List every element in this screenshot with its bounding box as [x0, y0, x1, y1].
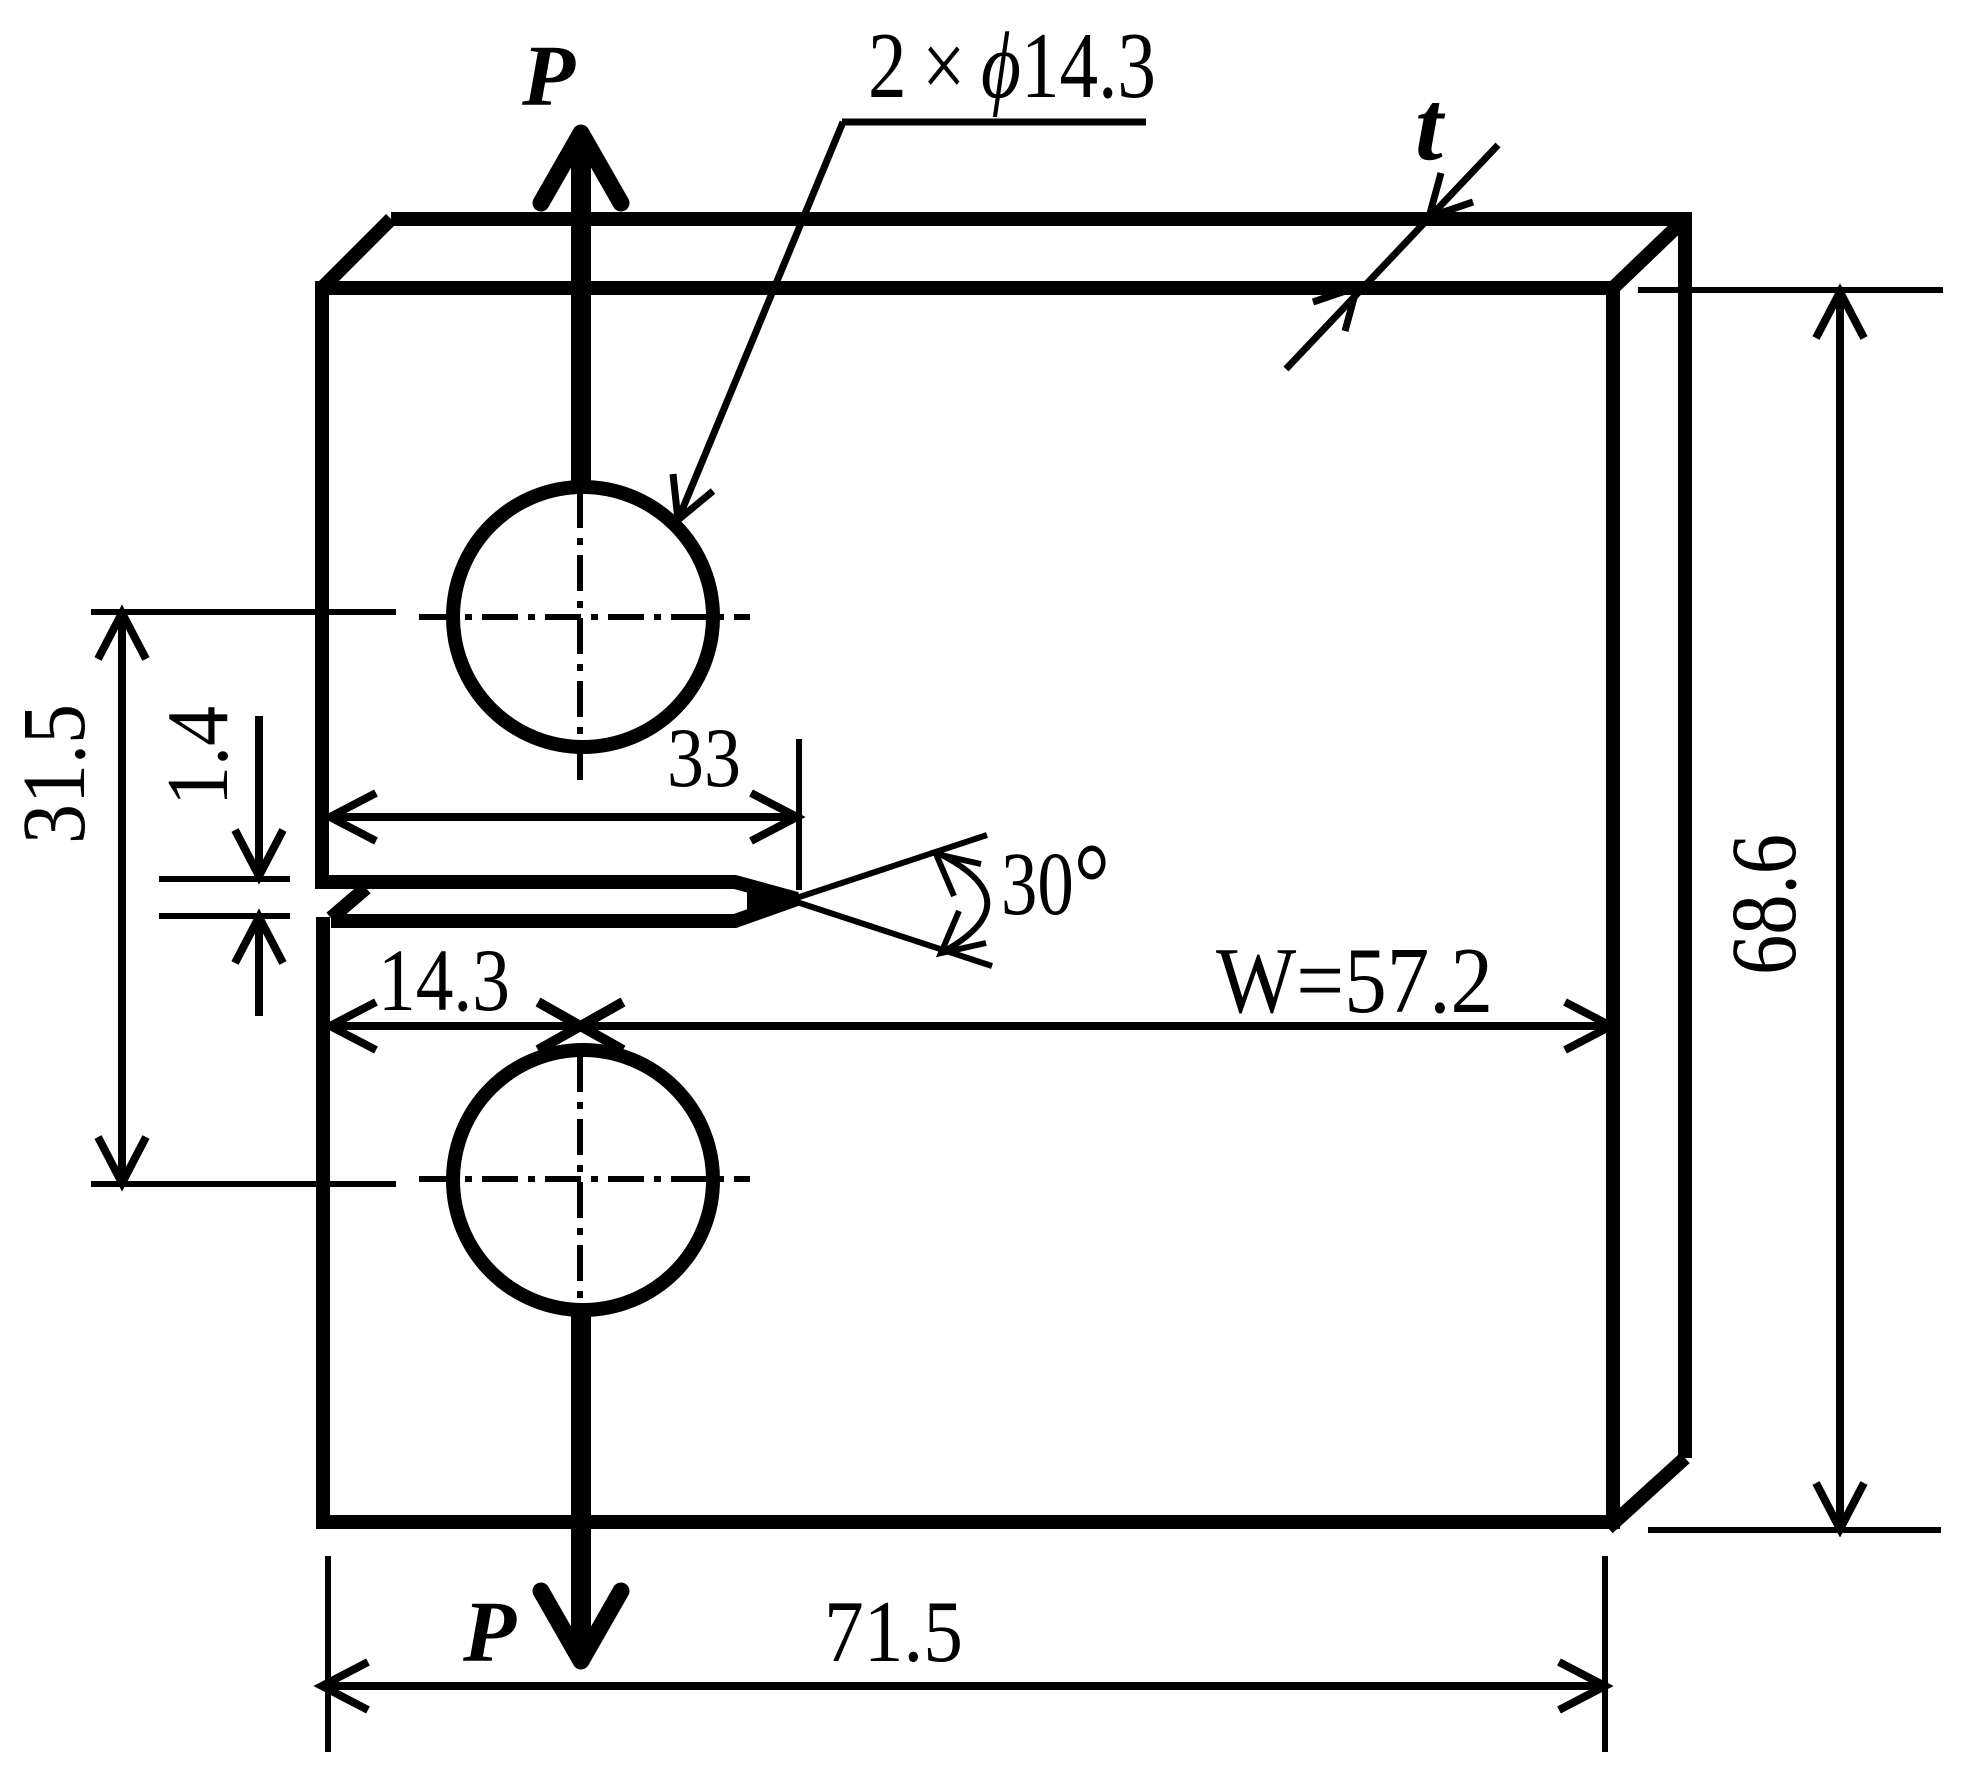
dim W right arrow	[1565, 1002, 1611, 1050]
dim 1.4 lower tick	[159, 913, 290, 919]
dim 33 line	[330, 813, 797, 821]
load arrow P down shaft	[571, 1316, 591, 1652]
top-right depth diagonal	[1613, 219, 1685, 288]
dim 31.5 bottom extension	[91, 1181, 396, 1187]
dim 33 left arrow	[330, 793, 376, 841]
notch angle arc upper arrowhead	[936, 854, 981, 896]
dim 14.3 / W line	[330, 1022, 1611, 1030]
lower pin hole	[453, 1050, 713, 1310]
hole label leader line	[680, 122, 843, 515]
notch angle arc	[938, 853, 987, 953]
upper pin hole	[453, 487, 713, 747]
svg-text:t: t	[1415, 70, 1446, 181]
dim 1.4 upper line	[235, 716, 283, 876]
svg-text:1.4: 1.4	[150, 706, 247, 806]
notch bottom lip	[331, 899, 797, 921]
notch top lip	[315, 882, 797, 899]
notch angle arc lower arrowhead	[941, 911, 986, 953]
dim 33 right arrow	[751, 793, 797, 841]
dim 68.6 bottom extension	[1648, 1527, 1941, 1533]
dim 71.5 right extension	[1602, 1556, 1608, 1752]
dim oblique mark	[538, 1002, 623, 1050]
dim 1.4 lower line	[235, 917, 283, 1016]
dim 33 extension line	[796, 739, 802, 890]
dim 31.5 bottom arrow	[98, 1137, 146, 1183]
notch angle upper line	[748, 835, 987, 914]
dim 1.4 upper tick	[159, 876, 290, 882]
thickness leader line	[1286, 145, 1498, 369]
svg-text:14.3: 14.3	[378, 932, 510, 1030]
hole label leader arrowhead	[673, 474, 713, 520]
svg-text:30°: 30°	[1001, 821, 1110, 945]
specimen front face outline	[322, 288, 1613, 1522]
svg-text:31.5: 31.5	[5, 704, 104, 844]
upper hole vertical centerline	[577, 492, 583, 786]
lower hole horizontal centerline	[419, 1176, 750, 1182]
dim 31.5 line	[118, 613, 126, 1183]
thickness lower arrowhead	[1313, 287, 1357, 331]
dim 68.6 top extension	[1638, 287, 1943, 293]
notch mouth chamfer	[331, 888, 366, 918]
top-left depth diagonal	[322, 219, 391, 288]
dim 71.5 left extension	[325, 1556, 331, 1752]
svg-text:33: 33	[667, 711, 741, 805]
notch tip fill	[747, 886, 797, 912]
lower hole vertical centerline	[577, 1056, 583, 1300]
dim 14.3 left arrow	[330, 1002, 376, 1050]
load arrow P down head	[541, 1591, 621, 1661]
load arrow P up shaft	[571, 150, 591, 481]
svg-text:68.6: 68.6	[1713, 834, 1816, 975]
dim 68.6 top arrow	[1816, 292, 1864, 338]
upper hole horizontal centerline	[419, 614, 750, 620]
dim 71.5 right arrow	[1559, 1662, 1605, 1710]
thickness upper arrowhead	[1429, 173, 1473, 217]
svg-text:71.5: 71.5	[824, 1584, 963, 1681]
dim 71.5 left arrow	[322, 1662, 368, 1710]
hole label underline	[842, 119, 1146, 126]
load arrow P up head	[541, 133, 621, 203]
specimen back top edge and back right edge	[391, 219, 1685, 1458]
notch angle lower line	[748, 886, 992, 966]
svg-text:P: P	[521, 27, 576, 124]
dim 31.5 top extension	[91, 609, 396, 615]
bottom-right depth diagonal	[1608, 1458, 1685, 1528]
dim 71.5 line	[322, 1682, 1605, 1690]
dim 31.5 top arrow	[98, 613, 146, 659]
svg-text:W=57.2: W=57.2	[1216, 929, 1493, 1033]
dim 68.6 bottom arrow	[1816, 1483, 1864, 1529]
dim 68.6 line	[1836, 292, 1844, 1529]
svg-text:P: P	[462, 1583, 517, 1680]
svg-text:2 × ϕ14.3: 2 × ϕ14.3	[868, 14, 1156, 118]
